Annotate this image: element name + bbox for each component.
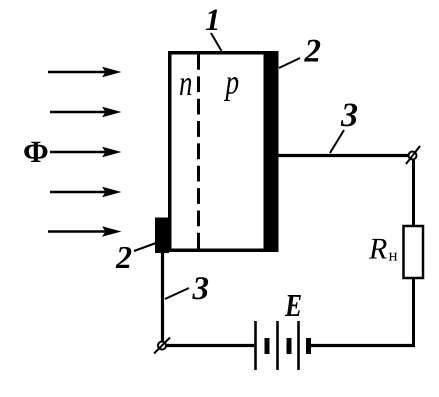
label Rн — [368, 233, 398, 266]
pointer line for bottom label 2 — [134, 243, 156, 251]
light ray arrow 2 — [50, 107, 122, 117]
photocell body 1 (outer rectangle) — [168, 51, 279, 252]
terminal (bottom left, circle with slash) — [154, 338, 170, 354]
svg-text:3: 3 — [340, 97, 358, 134]
svg-text:2: 2 — [304, 34, 322, 70]
battery E — [256, 321, 309, 370]
bottom wire right segment — [310, 344, 415, 347]
svg-text:1: 1 — [205, 2, 221, 37]
svg-text:n: n — [179, 63, 193, 103]
wire right vertical — [412, 159, 415, 346]
pointer line for top label 3 — [330, 130, 344, 153]
svg-text:н: н — [389, 246, 398, 265]
pointer line for top label 2 — [279, 58, 300, 68]
svg-text:E: E — [284, 287, 302, 323]
long plate 1 — [254, 321, 257, 370]
light ray arrow 5 — [48, 226, 122, 236]
pointer line for label 1 — [211, 33, 222, 51]
light ray arrow 1 — [48, 67, 122, 77]
light ray arrow 4 — [50, 187, 122, 197]
long plate 2 — [276, 321, 279, 370]
short thick plate 1 — [265, 338, 270, 354]
svg-text:p: p — [223, 63, 239, 102]
svg-text:R: R — [368, 233, 387, 266]
short thick plate 3 — [306, 338, 311, 354]
photocell interior (white) — [172, 55, 264, 249]
pointer line for bottom label 3 — [165, 288, 189, 299]
wire 3 (top output wire) — [277, 154, 412, 157]
front electrode 2 (right black bar) — [264, 51, 279, 252]
long plate 3 — [297, 321, 300, 370]
svg-text:3: 3 — [192, 271, 210, 307]
terminal (top right, circle with slash) — [406, 146, 420, 164]
bottom wire left segment — [166, 344, 254, 347]
svg-text:Φ: Φ — [23, 134, 49, 169]
p-n junction dashed line — [197, 54, 200, 249]
wire from rear electrode down to terminal — [161, 252, 164, 341]
svg-text:2: 2 — [115, 239, 132, 275]
rear electrode 2 (black square, bottom left) — [155, 218, 169, 254]
short thick plate 2 — [287, 338, 292, 354]
resistor Rн (load) — [404, 226, 424, 278]
light ray arrow 3 — [50, 147, 122, 157]
